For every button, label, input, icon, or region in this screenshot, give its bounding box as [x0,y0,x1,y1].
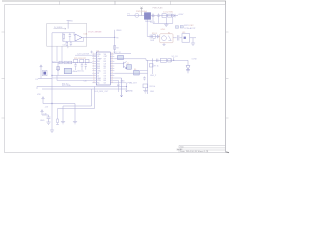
svg-text:VOUT_SENSE: VOUT_SENSE [88,31,102,33]
wire [38,78,52,80]
wire [118,80,120,92]
relay K1 contact [168,36,171,41]
frame tick top 2 [114,1,116,5]
resistor R5 [127,65,132,70]
svg-text:CON8: CON8 [192,59,197,61]
sheet outer top edge [2,0,226,2]
diode D8 [186,66,190,70]
svg-text:GND: GND [121,81,126,83]
svg-text:13: 13 [93,82,95,84]
resistor R27 [85,59,89,62]
ground [73,122,77,124]
svg-text:VO_24: VO_24 [172,56,178,58]
junction [126,86,127,87]
wire drop from bridge [146,20,148,37]
svg-text:GND: GND [150,91,155,93]
svg-text:+310V: +310V [178,14,185,16]
tick [56,124,59,126]
svg-text:100n 10u: 100n 10u [77,71,84,73]
svg-text:12: 12 [93,79,95,81]
IC right pins [110,54,114,83]
inductor L2 [161,58,167,62]
svg-text:C26: C26 [84,81,87,83]
svg-text:VBUS: VBUS [116,30,122,32]
svg-text:10k: 10k [63,44,66,46]
wire [57,79,92,81]
jumper JP1 [175,26,178,29]
wire [146,59,188,61]
diode bar [170,59,172,63]
svg-text:R7 1k: R7 1k [154,65,159,67]
wire [57,109,59,119]
svg-text:SCL SDA: SCL SDA [62,84,71,87]
ground [186,70,190,74]
diode D6 [168,59,171,63]
svg-text:R9 D9: R9 D9 [152,33,157,35]
bus3 left end tick [36,87,38,90]
svg-text:IN_SENSE: IN_SENSE [54,27,63,29]
wire [120,78,122,97]
resistor R7 [149,64,153,67]
ground [143,88,147,93]
resistor R6 [134,70,140,75]
wire [52,75,92,77]
wire [52,77,92,79]
capacitor C12 [70,41,72,46]
wire [52,62,92,64]
capacitor C9 [175,35,182,40]
svg-text:GND_P: GND_P [150,75,157,77]
IC left pins [92,54,96,83]
bridge rectifier D1 [144,13,150,20]
svg-text:24: 24 [111,58,113,60]
feedback wire [63,33,84,42]
op-amp U2 [75,34,82,41]
ground [46,122,50,124]
resistor R30 [162,14,166,18]
resistor R31 [57,118,59,125]
power port arrow 1 [42,97,45,104]
diode D9 [157,35,159,38]
left wire into box [51,33,53,104]
ground [164,23,168,26]
inductor L1 [168,14,172,17]
relay K1 [160,34,173,43]
vertical wire x147.5 [147,60,149,94]
resistor R26 [80,59,84,62]
svg-text:21: 21 [111,65,113,67]
diode D2 [172,14,175,18]
resistor R28 [57,63,59,76]
resistor R25 [74,59,78,62]
ground [191,43,195,45]
wire corner [187,60,189,65]
capacitor C6 [143,76,146,80]
junction [173,60,174,61]
resistor R3 [114,45,116,49]
junction [51,75,52,76]
wire bus4 [42,88,127,90]
power port arrow 2 [41,110,44,115]
long vertical ground [50,104,54,133]
wire [114,30,116,54]
capacitor C4 block [118,56,124,60]
svg-text:11: 11 [93,77,95,79]
transistor base wire [114,63,123,65]
capacitor C1 [152,13,154,17]
svg-text:D5: D5 [36,79,38,81]
relay K1 coil [162,36,167,41]
wire [114,77,121,79]
wire [147,35,160,37]
resistor R12 [74,33,75,35]
svg-text:AGND: AGND [128,89,134,92]
IC pin numbers right [111,53,113,84]
sheet box [47,24,87,47]
svg-text:10: 10 [93,74,95,76]
capacitor C11 [69,33,71,42]
svg-text:G5V-1: G5V-1 [161,29,166,31]
wire [42,114,49,116]
ground [61,122,65,124]
buzzer LS1 [182,34,190,43]
svg-text:GND: GND [40,120,45,122]
resistor R13 [66,40,68,43]
stub below box [67,46,69,48]
power symbol [90,51,93,54]
sheet background [0,0,230,162]
crystal Y1 [64,68,71,73]
wire [114,82,126,84]
svg-text:R8 10k: R8 10k [150,86,156,88]
wire [114,58,146,60]
IC pin numbers left [93,53,95,84]
wire mid verticals [63,104,75,122]
svg-text:Date: 2014-10-20 Sheet 1 / 1: Date: 2014-10-20 Sheet 1 / 1 [180,150,209,153]
buzzer dot [184,37,186,39]
svg-text:LED_DRV_OUT: LED_DRV_OUT [95,91,110,93]
svg-text:R3: R3 [116,48,118,50]
svg-text:25: 25 [111,55,113,57]
svg-text:14: 14 [111,82,113,84]
resistor R11 [63,33,65,42]
wire [173,37,196,39]
resistor R24 [69,61,72,64]
wire [140,70,148,72]
frame tick left [2,32,5,118]
capacitor C30 [47,115,51,122]
frame tick top 1 [59,1,61,5]
junction [114,37,115,38]
frame tick top 3 [170,1,172,5]
arrow label [54,28,67,30]
svg-text:SW1 KEY: SW1 KEY [184,25,194,27]
ground stub K1 [162,43,165,46]
svg-text:K1: K1 [168,32,170,34]
vertical drops from buses [92,87,95,109]
svg-text:17: 17 [111,74,113,76]
power flag PWR01 [140,7,143,16]
IC pin names [97,54,107,85]
wire vertical [57,46,62,62]
resistor R23 [64,61,67,64]
wire [43,103,75,105]
svg-text:LS1: LS1 [182,32,185,34]
svg-text:VIN: VIN [37,94,41,96]
sheet outer right edge [225,1,227,153]
schematic layer [36,6,197,132]
wire bus [153,22,173,24]
junction [51,103,52,104]
svg-text:C1 C2: C1 C2 [150,22,155,24]
svg-text:16: 16 [111,77,113,79]
wire [192,38,194,43]
svg-text:15: 15 [111,79,113,81]
wire [58,106,95,109]
wire [151,15,178,17]
svg-text:18: 18 [111,72,113,74]
capacitor C25 [85,63,87,70]
svg-text:PWM_OUT: PWM_OUT [128,83,138,85]
resistor R9 [153,35,156,39]
svg-text:22: 22 [111,62,113,64]
transistor Q1 [124,62,127,69]
svg-text:19: 19 [111,70,113,72]
resistor R8 [143,84,148,88]
power port arrow [40,65,42,79]
svg-text:23: 23 [111,60,113,62]
drawing frame [5,5,226,153]
wire [127,15,144,17]
frame tick right [226,32,229,118]
fuse F1 [135,13,139,17]
capacitor C7 [156,59,158,62]
wire drop [153,17,173,23]
svg-text:20: 20 [111,67,113,69]
svg-text:C1 C2 R30: C1 C2 R30 [163,12,174,14]
resistor R22 [59,61,62,64]
capacitor C2 [157,13,159,17]
capacitor C21 [74,63,76,70]
wire [75,54,96,56]
frame corner mark bottom right [226,151,229,154]
jumper JP2 [180,26,183,29]
wire drop [151,62,153,74]
diode D5 [42,70,47,75]
wire [114,72,147,74]
stub up [173,57,175,60]
power stub [67,21,70,29]
title block [177,145,226,152]
diode D7 [151,58,153,62]
wire [114,79,118,81]
wire [115,53,131,55]
wire [126,83,128,92]
capacitor C22 [81,63,83,70]
svg-text:CON-AC2P: CON-AC2P [184,27,196,30]
resistor R32 [56,67,59,70]
wire bus3 [37,86,127,88]
wire [56,76,58,81]
wire [52,32,75,34]
op-amp output wire [82,37,115,39]
capacitor C8 [150,35,151,39]
svg-text:PWR_FLAG: PWR_FLAG [153,6,163,9]
IC body [96,52,110,85]
